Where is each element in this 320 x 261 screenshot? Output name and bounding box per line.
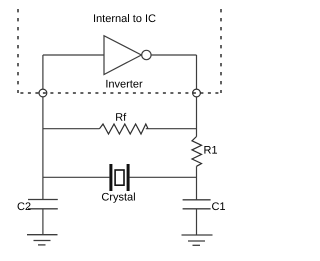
label Crystal (102, 193, 135, 203)
wire C1 to ground (196, 209, 198, 235)
wire Rf row left (43, 128, 100, 130)
capacitor C2 bottom plate (28, 208, 58, 210)
label R1 (204, 146, 217, 154)
crystal X1 right electrode (127, 164, 130, 191)
wire inverter output horizontal (151, 54, 196, 56)
wire inverter input horizontal (43, 54, 104, 56)
node left IC terminal (39, 89, 47, 97)
wire right vertical lower (196, 166, 198, 200)
wire crystal row right (130, 176, 197, 178)
resistor R1 (192, 137, 202, 167)
crystal X1 body (115, 170, 124, 185)
wire crystal row left (43, 176, 110, 178)
label Internal to IC (94, 14, 156, 22)
node right IC terminal (193, 89, 201, 97)
capacitor C1 bottom plate (183, 208, 211, 210)
label Inverter (106, 80, 142, 88)
label C1 (212, 202, 225, 210)
capacitor C1 top plate (183, 199, 211, 201)
wire C2 to ground (42, 209, 44, 235)
dashed IC boundary left (17, 9, 19, 93)
label C2 (18, 202, 31, 210)
wire right vertical upper (196, 55, 198, 137)
ground left (27, 235, 58, 245)
inverter output bubble (142, 50, 151, 59)
op-amp U1 inverter triangle (104, 36, 141, 75)
dashed IC boundary bottom (18, 92, 221, 94)
label Rf (116, 113, 126, 121)
wire Rf row right (146, 128, 197, 130)
wire left vertical bus (42, 55, 44, 200)
crystal X1 left electrode (109, 164, 112, 191)
ground right (182, 235, 213, 245)
dashed IC boundary right (220, 9, 222, 93)
capacitor C2 top plate (28, 199, 58, 201)
resistor Rf (100, 124, 149, 134)
